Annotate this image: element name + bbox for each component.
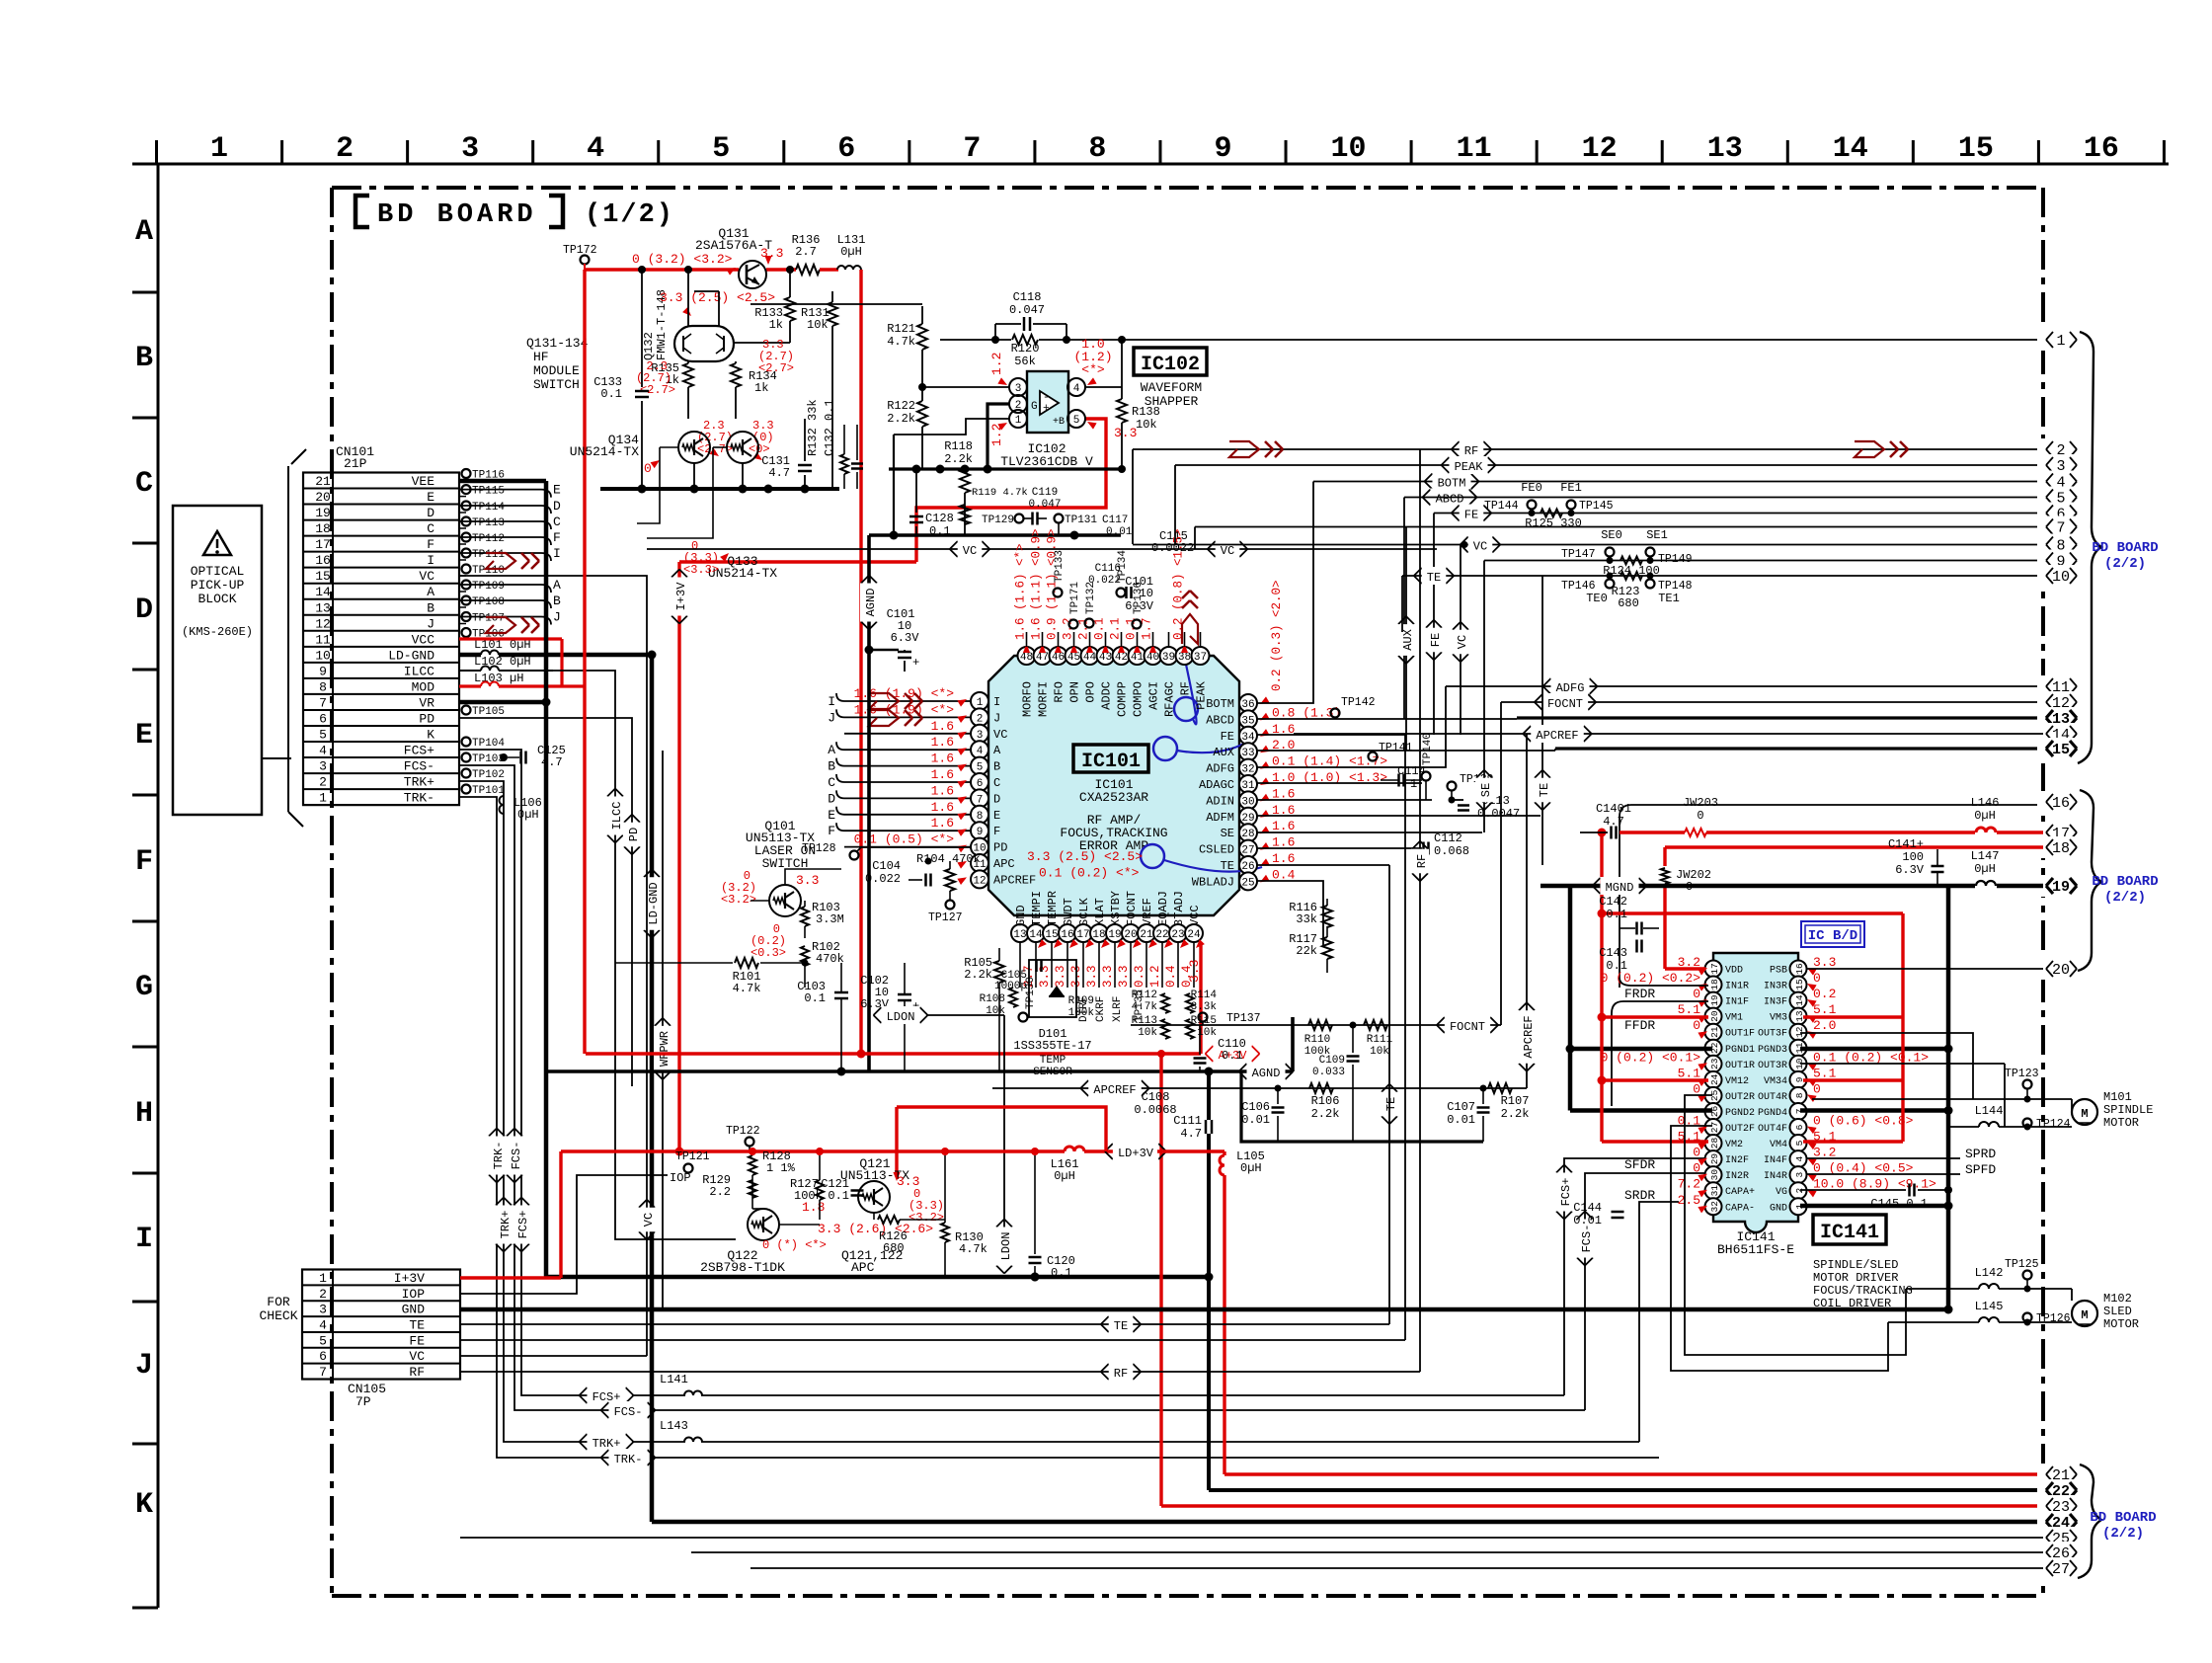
- svg-text:WAVEFORM: WAVEFORM: [1141, 380, 1202, 395]
- tag VC vertical CN101-CN105: [460, 1355, 647, 1357]
- svg-text:44: 44: [1083, 652, 1097, 664]
- svg-text:TEMP: TEMP: [1040, 1055, 1066, 1067]
- net stub lines FRDR FFDR: [1619, 978, 1708, 986]
- svg-text:OUT3F: OUT3F: [1758, 1029, 1787, 1040]
- brace 1-15: [2078, 332, 2101, 763]
- IC141 pin 5 VM4: [1790, 1135, 1807, 1151]
- IC141 pin 26 PGND2: [1705, 1103, 1722, 1120]
- svg-text:AGCI: AGCI: [1147, 681, 1161, 710]
- svg-text:3.3: 3.3: [760, 246, 783, 261]
- svg-text:JW203: JW203: [1683, 796, 1718, 810]
- wire FCS+ vertical: [459, 750, 606, 1395]
- svg-text:48: 48: [1020, 652, 1033, 664]
- svg-text:C141+: C141+: [1888, 837, 1924, 851]
- IC141 pin 12 OUT3F: [1790, 1024, 1807, 1041]
- svg-text:PSB: PSB: [1770, 966, 1787, 977]
- wire pin4 to right: [1084, 386, 1122, 388]
- IC101 pin 37 PEAK: [1192, 647, 1210, 665]
- test point TP131: [1055, 515, 1064, 523]
- IC141 pin 2 VG: [1790, 1182, 1807, 1199]
- thick GND horizontal row H: [546, 1275, 1209, 1280]
- svg-text:GND: GND: [1014, 905, 1028, 926]
- wires Q132 collectors: [687, 270, 689, 326]
- svg-text:TP137: TP137: [1226, 1012, 1261, 1025]
- svg-text:RF: RF: [409, 1365, 425, 1380]
- svg-text:10: 10: [315, 648, 331, 663]
- boxed label IC101: [1073, 745, 1148, 772]
- svg-text:FOR: FOR: [267, 1295, 290, 1309]
- svg-text:I: I: [553, 546, 561, 561]
- svg-text:FE: FE: [1221, 730, 1234, 744]
- svg-text:I: I: [135, 1223, 153, 1256]
- svg-text:PD: PD: [419, 711, 434, 726]
- svg-text:C: C: [993, 776, 1000, 790]
- red chevron arrow I row: [486, 553, 515, 569]
- thick LD-GND vertical to 24: [650, 655, 655, 1522]
- svg-text:1.6: 1.6: [1272, 851, 1295, 866]
- svg-text:R118: R118: [944, 439, 973, 453]
- IC101 pin 27 CSLED: [1239, 840, 1257, 858]
- svg-text:R138: R138: [1132, 405, 1160, 419]
- svg-text:OPO: OPO: [1084, 681, 1098, 703]
- svg-text:0.1: 0.1: [1606, 908, 1627, 921]
- board outline dash-dot: [332, 186, 2043, 190]
- svg-text:0.2 (0.3) <2.0>: 0.2 (0.3) <2.0>: [1270, 580, 1284, 691]
- wire OUT to motor upper: [1811, 1095, 1813, 1099]
- svg-text:M101: M101: [2103, 1090, 2132, 1104]
- svg-text:3.3: 3.3: [1813, 955, 1836, 970]
- svg-text:JW202: JW202: [1676, 868, 1711, 882]
- svg-text:G: G: [1031, 401, 1038, 413]
- svg-text:FCS-: FCS-: [1580, 1225, 1594, 1253]
- svg-text:OUT3R: OUT3R: [1758, 1061, 1787, 1071]
- wire pin36 BOTM to 4: [1257, 482, 1313, 704]
- svg-text:0: 0: [1813, 971, 1821, 986]
- IC101 pin 48 MORFO: [1018, 647, 1036, 665]
- svg-text:1.6: 1.6: [931, 767, 954, 782]
- IC141 pin 16 PSB: [1790, 961, 1807, 978]
- tag LDON vertical x914: [902, 1220, 904, 1277]
- IC101 pin 10 PD: [971, 838, 988, 856]
- IC101 pin 9 F: [971, 822, 988, 839]
- wire 3 PEAK row: [1175, 464, 2043, 466]
- svg-text:7P: 7P: [355, 1394, 371, 1409]
- wire 7 row: [1195, 526, 2043, 528]
- svg-text:TRK-: TRK-: [404, 791, 434, 806]
- svg-text:IC141: IC141: [1820, 1222, 1879, 1244]
- svg-text:56k: 56k: [1014, 355, 1036, 368]
- svg-text:<3.2>: <3.2>: [721, 893, 756, 907]
- wire 26 row: [691, 1551, 2043, 1553]
- svg-text:L145: L145: [1975, 1300, 2004, 1313]
- svg-text:SPINDLE/SLED: SPINDLE/SLED: [1813, 1258, 1898, 1272]
- thick wire 22: [1209, 1488, 2043, 1492]
- svg-text:TP172: TP172: [563, 244, 597, 257]
- svg-text:0: 0: [1693, 1146, 1700, 1160]
- svg-text:33k: 33k: [1296, 912, 1317, 926]
- svg-text:2.2k: 2.2k: [1311, 1107, 1340, 1121]
- svg-text:0: 0: [644, 461, 652, 476]
- wire pin27 CSLED: [1257, 847, 1422, 849]
- svg-text:<*>: <*>: [1081, 362, 1105, 377]
- svg-text:M102: M102: [2103, 1292, 2132, 1306]
- svg-text:36: 36: [1241, 699, 1254, 711]
- svg-text:TE: TE: [1427, 571, 1441, 585]
- svg-text:RF: RF: [1415, 854, 1429, 868]
- svg-text:SE0: SE0: [1601, 528, 1622, 542]
- svg-text:I: I: [828, 694, 835, 709]
- svg-text:TE: TE: [1114, 1319, 1128, 1333]
- test point TP141: [1369, 752, 1378, 761]
- svg-text:10: 10: [2052, 569, 2070, 586]
- svg-text:30: 30: [1709, 1169, 1720, 1181]
- svg-text:4: 4: [977, 746, 984, 757]
- svg-text:ADAGC: ADAGC: [1199, 778, 1234, 792]
- svg-text:TP136: TP136: [1133, 582, 1145, 614]
- svg-text:10k: 10k: [1138, 1027, 1157, 1039]
- svg-text:(2/2): (2/2): [2104, 556, 2146, 572]
- svg-text:47: 47: [1036, 652, 1049, 664]
- resistor R119: [960, 505, 970, 524]
- svg-text:3: 3: [977, 730, 984, 742]
- optical pick-up block: [173, 506, 262, 815]
- IC141 pin 32 CAPA-: [1705, 1198, 1722, 1215]
- svg-text:13: 13: [1013, 929, 1026, 941]
- wire left of node to Q-switch area: [860, 468, 889, 470]
- svg-text:L144: L144: [1975, 1104, 2004, 1118]
- IC102 pin 2: [1009, 395, 1027, 413]
- svg-text:1.2: 1.2: [1148, 965, 1162, 988]
- svg-text:0µH: 0µH: [1974, 862, 1996, 876]
- svg-text:2: 2: [319, 775, 327, 790]
- svg-text:45: 45: [1067, 652, 1080, 664]
- svg-text:TP126: TP126: [2036, 1312, 2071, 1325]
- IC141 pin 13 VM3: [1790, 1008, 1807, 1025]
- resistor R106: [1309, 1083, 1333, 1093]
- svg-text:1.6: 1.6: [931, 816, 954, 831]
- svg-text:SPRD: SPRD: [1965, 1147, 1996, 1161]
- IC101 pin 28 SE: [1239, 824, 1257, 841]
- svg-text:TE: TE: [1384, 1097, 1398, 1111]
- svg-text:I: I: [993, 695, 1000, 709]
- svg-text:(2/2): (2/2): [2104, 890, 2146, 906]
- svg-text:AGND: AGND: [864, 589, 878, 617]
- svg-text:BOTM: BOTM: [1206, 697, 1234, 711]
- svg-text:TP129: TP129: [982, 515, 1014, 526]
- svg-text:TRK-: TRK-: [492, 1142, 506, 1170]
- svg-text:RF: RF: [1464, 444, 1478, 458]
- svg-text:TP133: TP133: [1054, 550, 1066, 583]
- svg-text:0.1: 0.1: [1093, 617, 1107, 640]
- svg-text:1: 1: [1015, 415, 1022, 427]
- svg-text:APCREF: APCREF: [1522, 1015, 1536, 1058]
- test point TP124: [2023, 1119, 2032, 1128]
- wire 6 FE row: [1434, 513, 2043, 515]
- svg-text:1.6 (1.6) <*>: 1.6 (1.6) <*>: [1014, 543, 1028, 640]
- svg-text:K: K: [135, 1488, 153, 1522]
- wire to IC102 pin3: [922, 386, 1009, 388]
- svg-text:E: E: [993, 809, 1000, 823]
- wires IC141 outputs to motors: [1800, 1033, 1973, 1099]
- svg-text:VM12: VM12: [1725, 1076, 1749, 1087]
- red vertical L105 branch to 21: [1223, 1151, 1225, 1155]
- svg-text:OUT2R: OUT2R: [1725, 1092, 1755, 1103]
- svg-text:OUT2F: OUT2F: [1725, 1124, 1755, 1135]
- svg-text:8: 8: [319, 679, 327, 694]
- svg-text:3.3: 3.3: [796, 873, 819, 888]
- svg-text:ADFG: ADFG: [1206, 762, 1234, 776]
- svg-text:VC: VC: [963, 544, 977, 558]
- IC101 pin 38 RF: [1176, 647, 1194, 665]
- svg-text:M: M: [2081, 1308, 2088, 1322]
- boxed label IC B/D: [1801, 921, 1864, 947]
- red wires VM left: [1602, 1015, 1708, 1018]
- wires Q121 Q122 links: [779, 1224, 820, 1226]
- svg-text:3.3M: 3.3M: [816, 912, 844, 926]
- transistor Q133: [727, 432, 758, 463]
- svg-text:VC: VC: [993, 728, 1007, 742]
- IC101 pin 30 ADIN: [1239, 791, 1257, 809]
- svg-text:2.5: 2.5: [1678, 1193, 1700, 1208]
- svg-text:6: 6: [319, 711, 327, 726]
- svg-text:SPFD: SPFD: [1965, 1162, 1996, 1177]
- svg-text:6: 6: [319, 1349, 327, 1364]
- svg-text:1.6: 1.6: [931, 719, 954, 734]
- svg-text:TP103: TP103: [472, 753, 505, 765]
- svg-text:0.0068: 0.0068: [1134, 1103, 1176, 1117]
- svg-text:A: A: [553, 578, 561, 593]
- svg-text:0.1: 0.1: [1051, 1266, 1072, 1280]
- test points TP105-TP101: [462, 706, 471, 715]
- IC141 pin 20 VM1: [1705, 1008, 1722, 1025]
- tag TRK- vertical: [489, 1129, 497, 1137]
- IC141 body: [1713, 953, 1798, 1232]
- IC102 pin 4: [1067, 378, 1085, 396]
- svg-text:R121: R121: [887, 322, 915, 336]
- sled motor M102: [2072, 1301, 2097, 1326]
- wire SPRD stub: [1806, 1157, 1960, 1159]
- svg-text:I: I: [427, 553, 434, 568]
- red vertical VM rail: [1600, 832, 1603, 1142]
- boxed label IC141: [1813, 1215, 1886, 1244]
- svg-text:OUT4F: OUT4F: [1758, 1124, 1787, 1135]
- connector CN105 7P: [302, 1270, 460, 1380]
- svg-text:J: J: [993, 711, 1000, 725]
- svg-text:IOP: IOP: [670, 1171, 691, 1185]
- IC101 pin 14 TEMPI: [1027, 924, 1045, 942]
- svg-text:24: 24: [1187, 929, 1201, 941]
- svg-text:0.1: 0.1: [600, 387, 622, 401]
- svg-text:IN2F: IN2F: [1725, 1155, 1749, 1166]
- svg-text:32: 32: [1241, 764, 1254, 776]
- IC101 pin 25 WBLADJ: [1239, 872, 1257, 890]
- svg-text:I+3V: I+3V: [394, 1271, 425, 1286]
- wire pin1: [894, 419, 1009, 435]
- svg-text:0 (3.2) <3.2>: 0 (3.2) <3.2>: [632, 252, 733, 267]
- brace 16-20: [2078, 790, 2101, 971]
- svg-text:TP105: TP105: [472, 706, 505, 718]
- test point TP172: [581, 256, 590, 265]
- svg-text:14: 14: [1794, 994, 1805, 1006]
- svg-text:MOTOR DRIVER: MOTOR DRIVER: [1813, 1271, 1898, 1285]
- svg-text:D: D: [427, 506, 434, 520]
- svg-text:F: F: [135, 845, 153, 879]
- IC101 pin 35 ABCD: [1239, 710, 1257, 728]
- svg-text:L142: L142: [1975, 1266, 2004, 1280]
- thick GND junction: [1944, 1306, 1953, 1314]
- svg-text:4.7k: 4.7k: [887, 335, 915, 349]
- svg-text:SWDT: SWDT: [1062, 898, 1075, 926]
- capacitor C110: [1199, 1025, 1201, 1055]
- svg-text:0 (*) <*>: 0 (*) <*>: [762, 1238, 827, 1252]
- svg-text:FE0: FE0: [1521, 481, 1542, 495]
- svg-text:VC: VC: [409, 1349, 425, 1364]
- wire pin26 TE: [1257, 864, 1389, 866]
- svg-text:IN4R: IN4R: [1764, 1171, 1787, 1182]
- svg-text:B: B: [135, 342, 153, 375]
- svg-text:10k: 10k: [1370, 1046, 1389, 1058]
- thick wire C111 to 22: [1207, 1071, 1211, 1120]
- svg-text:C104: C104: [872, 859, 901, 873]
- svg-text:XLRF: XLRF: [1112, 996, 1124, 1022]
- svg-text:33: 33: [1241, 748, 1254, 759]
- svg-text:TP141: TP141: [1379, 742, 1413, 754]
- IC141 pin 24 VM12: [1705, 1071, 1722, 1088]
- test points TP116-TP106: [459, 480, 466, 482]
- FOCNT vertical: [1500, 702, 1502, 1025]
- wire pin28 SE: [1257, 831, 1482, 833]
- svg-text:E: E: [553, 483, 561, 498]
- svg-text:0.01: 0.01: [1573, 1214, 1602, 1227]
- svg-text:R109: R109: [1068, 995, 1094, 1007]
- IC101 pin 15 TEMPR: [1043, 924, 1061, 942]
- tag PD vertical: [459, 718, 632, 1086]
- svg-text:7: 7: [977, 794, 984, 806]
- svg-text:TP145: TP145: [1579, 500, 1614, 513]
- capacitor C128: [909, 515, 923, 518]
- svg-text:FCS-: FCS-: [614, 1405, 643, 1419]
- svg-text:BH6511FS-E: BH6511FS-E: [1717, 1242, 1794, 1257]
- svg-text:F: F: [828, 824, 835, 838]
- svg-text:R125 330: R125 330: [1525, 516, 1582, 530]
- svg-text:TP171: TP171: [1069, 582, 1081, 614]
- svg-text:C: C: [553, 515, 561, 529]
- svg-text:10: 10: [1331, 132, 1367, 166]
- svg-text:C107: C107: [1447, 1100, 1475, 1114]
- svg-text:TP130: TP130: [1025, 977, 1037, 1009]
- svg-text:C: C: [828, 775, 835, 790]
- svg-text:21: 21: [315, 474, 331, 489]
- svg-text:OUT1F: OUT1F: [1725, 1029, 1755, 1040]
- red chevron arrow J row: [486, 617, 515, 633]
- svg-text:FOCUS/TRACKING: FOCUS/TRACKING: [1813, 1284, 1913, 1298]
- wire FCS- to IC141: [1585, 1173, 1708, 1410]
- svg-text:D: D: [135, 594, 153, 627]
- svg-text:19: 19: [2052, 879, 2070, 896]
- svg-text:TE0: TE0: [1586, 592, 1608, 605]
- svg-text:2.2k: 2.2k: [964, 968, 992, 982]
- svg-text:23: 23: [1171, 929, 1184, 941]
- red branch up to Q121: [897, 1107, 1106, 1151]
- dark red chevron up near pin38: [1182, 614, 1198, 644]
- svg-text:SFDR: SFDR: [1624, 1157, 1655, 1172]
- IC141 pin 10 OUT3R: [1790, 1056, 1807, 1072]
- svg-text:L147: L147: [1971, 849, 2000, 863]
- wire IOP: [460, 1175, 668, 1294]
- wire 25 row: [1639, 1202, 1679, 1442]
- svg-text:2SB798-T1DK: 2SB798-T1DK: [700, 1260, 785, 1275]
- svg-text:5: 5: [319, 1333, 327, 1348]
- IC101 pin 41 COMPO: [1129, 647, 1146, 665]
- svg-text:9: 9: [1214, 132, 1231, 166]
- red wire I+3V from CN105: [460, 1276, 561, 1279]
- svg-text:TP112: TP112: [472, 533, 505, 545]
- svg-text:SE: SE: [1479, 783, 1493, 797]
- red wire L131 down to A+3V: [859, 270, 862, 1054]
- wire 9 stub: [1525, 559, 1527, 561]
- svg-text:0.1: 0.1: [828, 1189, 849, 1203]
- svg-text:PGND1: PGND1: [1725, 1045, 1755, 1056]
- svg-text:WRPWR: WRPWR: [658, 1031, 671, 1067]
- svg-text:(1/2): (1/2): [585, 200, 674, 230]
- svg-text:AUX: AUX: [1213, 746, 1234, 759]
- IC101 pin 45 OPN: [1066, 647, 1083, 665]
- svg-text:LD-GND: LD-GND: [388, 648, 434, 663]
- svg-text:46: 46: [1052, 652, 1065, 664]
- svg-text:680: 680: [1618, 596, 1639, 610]
- svg-text:3: 3: [1015, 383, 1022, 395]
- svg-text:8: 8: [1794, 1092, 1805, 1098]
- svg-text:41: 41: [1131, 652, 1145, 664]
- svg-text:C: C: [427, 521, 434, 536]
- svg-text:17: 17: [1709, 963, 1720, 974]
- svg-text:5.1: 5.1: [1678, 1066, 1701, 1080]
- svg-text:42: 42: [1115, 652, 1128, 664]
- svg-text:1.7: 1.7: [1141, 617, 1154, 640]
- IC101 pin 32 ADFG: [1239, 759, 1257, 777]
- brace 21-27: [2078, 1465, 2101, 1578]
- wire pin2 thick loop: [987, 404, 1009, 469]
- svg-text:35: 35: [1241, 715, 1254, 727]
- svg-text:11: 11: [1457, 132, 1492, 166]
- tag ILCC vertical: [459, 670, 553, 672]
- svg-text:TP113: TP113: [472, 517, 505, 529]
- svg-text:0.047: 0.047: [1009, 303, 1045, 317]
- capacitor C107: [1482, 1088, 1484, 1104]
- svg-text:20: 20: [2052, 962, 2070, 979]
- svg-text:TP127: TP127: [928, 911, 963, 924]
- svg-text:TE: TE: [409, 1318, 425, 1333]
- IC101 pin 3 VC: [971, 725, 988, 743]
- svg-text:20: 20: [1709, 1010, 1720, 1022]
- AGND thick vertical: [867, 535, 871, 1071]
- tag FCS+ row: [580, 1387, 588, 1395]
- IC101 pin 47 MORFI: [1034, 647, 1052, 665]
- svg-text:6: 6: [1794, 1124, 1805, 1130]
- svg-text:VM34: VM34: [1764, 1076, 1787, 1087]
- svg-text:B: B: [553, 594, 561, 608]
- IC101 pin 46 RFO: [1050, 647, 1067, 665]
- wire TRK+ vertical: [459, 781, 606, 1442]
- svg-text:VEE: VEE: [412, 474, 435, 489]
- wire 16 row: [1619, 805, 2043, 988]
- svg-text:5: 5: [319, 727, 327, 742]
- wire APCREF net: [992, 1087, 1527, 1089]
- svg-text:19: 19: [315, 506, 331, 520]
- svg-text:VM1: VM1: [1725, 1013, 1743, 1024]
- red chevrons I J pins: [869, 693, 899, 709]
- svg-text:<3.3>: <3.3>: [683, 563, 719, 577]
